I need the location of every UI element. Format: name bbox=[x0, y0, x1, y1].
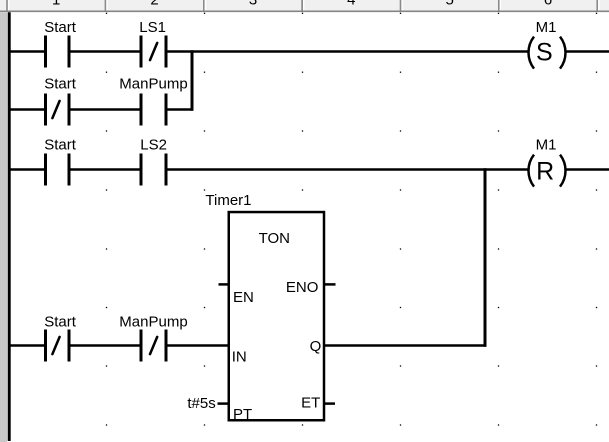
wire Q output to junction bbox=[324, 344, 487, 347]
svg-text:Start: Start bbox=[44, 137, 77, 154]
contact ManPump (NC) rung4 bbox=[141, 330, 166, 362]
svg-text:ET: ET bbox=[301, 395, 320, 412]
svg-text:R: R bbox=[536, 158, 554, 186]
wire rung3 Start to LS2 bbox=[70, 168, 140, 171]
svg-text:S: S bbox=[536, 39, 553, 67]
wire rung1 LS1 to coil bbox=[165, 50, 527, 53]
svg-text:TON: TON bbox=[259, 230, 290, 247]
column ruler header bbox=[0, 0, 609, 12]
svg-text:PT: PT bbox=[233, 406, 252, 423]
svg-text:LS2: LS2 bbox=[140, 137, 167, 154]
wire branch ManPump to join bbox=[165, 108, 193, 111]
contact LS2 (NO) rung3 bbox=[141, 154, 166, 186]
coil M1 (R) reset bbox=[528, 155, 565, 187]
contact Start (NO) rung1 bbox=[46, 36, 70, 68]
svg-text:ManPump: ManPump bbox=[119, 75, 187, 92]
wire rung4 Start to ManPump bbox=[70, 344, 140, 347]
wire rung1 rail to Start bbox=[10, 50, 45, 53]
contact Start (NO) rung3 bbox=[46, 154, 70, 186]
svg-text:M1: M1 bbox=[536, 136, 557, 153]
svg-text:5: 5 bbox=[446, 0, 454, 9]
svg-text:LS1: LS1 bbox=[139, 19, 166, 36]
svg-text:Start: Start bbox=[44, 314, 77, 331]
svg-text:2: 2 bbox=[150, 0, 158, 9]
pin EN stub bbox=[219, 283, 229, 286]
pin PT stub bbox=[218, 402, 229, 405]
wire branch rail to Start NC bbox=[10, 108, 45, 111]
svg-text:EN: EN bbox=[233, 289, 254, 306]
wire branch Start to ManPump bbox=[70, 108, 140, 111]
left margin strip bbox=[0, 12, 7, 442]
wire rung3 rail to Start bbox=[10, 168, 45, 171]
svg-text:1: 1 bbox=[52, 0, 60, 9]
vertical branch join wire bbox=[191, 50, 194, 110]
svg-text:Timer1: Timer1 bbox=[205, 192, 251, 209]
wire rung4 ManPump to timer IN bbox=[165, 344, 228, 347]
vertical junction wire Q to rung3 bbox=[484, 168, 487, 346]
svg-text:Start: Start bbox=[44, 75, 77, 92]
contact ManPump (NO) branch bbox=[141, 94, 166, 126]
svg-text:3: 3 bbox=[249, 0, 257, 9]
svg-text:ManPump: ManPump bbox=[119, 314, 187, 331]
svg-text:6: 6 bbox=[544, 0, 552, 9]
wire rung1 Start to LS1 bbox=[70, 50, 140, 53]
pin ENO stub bbox=[324, 283, 336, 286]
contact Start (NC) rung4 bbox=[46, 330, 70, 362]
svg-text:M1: M1 bbox=[536, 19, 557, 36]
svg-text:4: 4 bbox=[347, 0, 355, 9]
wire rung3 LS2 to coil bbox=[165, 168, 527, 171]
wire rung1 coil to right edge bbox=[566, 50, 609, 53]
svg-text:IN: IN bbox=[232, 349, 247, 366]
coil M1 (S) set bbox=[528, 37, 565, 69]
contact Start (NC) branch bbox=[46, 94, 70, 126]
svg-text:ENO: ENO bbox=[286, 279, 319, 296]
timer U1 Timer1 TON function block bbox=[205, 192, 324, 420]
wire rung3 coil to right edge bbox=[566, 168, 609, 171]
wire rung4 rail to Start bbox=[10, 344, 45, 347]
pin ET stub bbox=[324, 402, 335, 405]
svg-text:t#5s: t#5s bbox=[187, 395, 215, 412]
left power rail bbox=[8, 12, 11, 441]
contact LS1 (NC) rung1 bbox=[141, 36, 166, 68]
svg-text:Start: Start bbox=[44, 19, 77, 36]
svg-text:Q: Q bbox=[310, 338, 322, 355]
